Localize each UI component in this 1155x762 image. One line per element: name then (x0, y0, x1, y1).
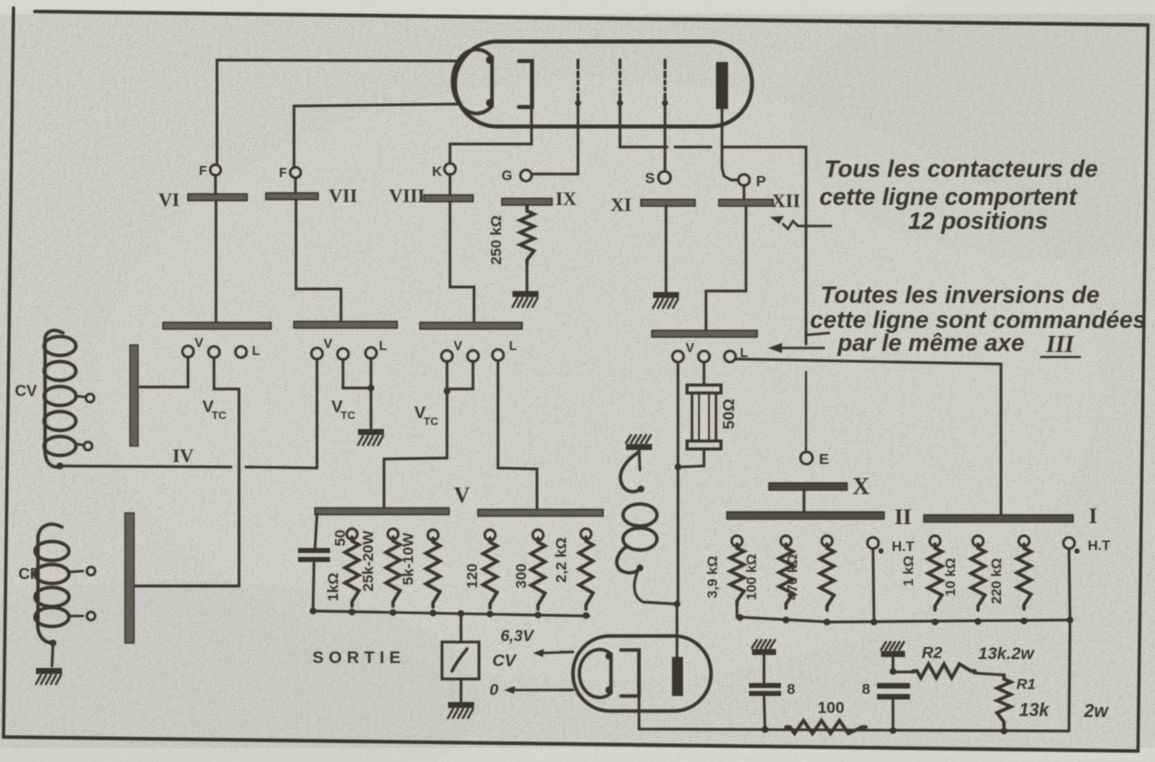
wire ground to choke (639, 450, 640, 470)
svg-text:2,2 kΩ: 2,2 kΩ (553, 537, 570, 582)
label R2 (922, 645, 943, 662)
svg-text:2w: 2w (1083, 701, 1109, 721)
svg-text:III: III (1045, 332, 1076, 358)
svg-text:P: P (756, 173, 766, 190)
terminal R 3.9k (732, 536, 742, 546)
svg-text:L: L (509, 338, 517, 353)
switch VII (266, 186, 357, 207)
junction (bank2 935) (932, 619, 939, 626)
note inversions line 2 (810, 307, 1146, 334)
junction (bank V 490) (487, 611, 494, 618)
label 120 (464, 563, 481, 588)
junction (bank2 1070) (1067, 617, 1074, 624)
wire switch V to C 1k (315, 514, 317, 548)
junction (cap2 bottom) (890, 727, 897, 734)
wire D-center to R 50ohm (703, 362, 706, 384)
wire B-V to line IV (316, 359, 319, 468)
junction (bank V 433) (430, 610, 437, 617)
svg-text:CV: CV (15, 383, 38, 400)
switch XII (719, 191, 800, 212)
terminal S (645, 170, 671, 187)
terminal P (739, 173, 767, 190)
wire cathode V1 to K (450, 107, 532, 163)
junction (CF bottom) (50, 640, 57, 647)
meter SORTIE box (442, 642, 479, 679)
resistor 300 (531, 538, 545, 609)
svg-text:12 positions: 12 positions (908, 208, 1048, 235)
coil choke (617, 452, 657, 573)
svg-text:13k: 13k (1019, 700, 1050, 720)
label IV (172, 446, 193, 467)
junction (bank V 461) (458, 610, 465, 617)
wire bank V bottom (313, 611, 589, 616)
svg-text:50Ω: 50Ω (721, 399, 738, 430)
wire C-L down to switch V right (498, 361, 537, 508)
wire ground to cap1 (763, 655, 766, 683)
svg-text:300: 300 (513, 563, 530, 588)
wire P to switch XII (743, 185, 746, 199)
coil CV (44, 330, 76, 467)
wire R 50ohm down (680, 449, 704, 467)
terminal A-L (236, 343, 261, 358)
arrow heater CV (533, 649, 573, 657)
wire to SORTIE (460, 614, 463, 642)
svg-text:100: 100 (818, 700, 845, 717)
switch wafer C (420, 323, 522, 330)
junction (bank V 538) (535, 612, 542, 619)
label SORTIE (312, 648, 405, 667)
terminal A-center (209, 347, 220, 358)
note inversions line 3 (837, 330, 1025, 357)
wire line IV (60, 466, 317, 468)
svg-text:220 kΩ: 220 kΩ (988, 558, 1004, 604)
arrow heater 0 (504, 686, 573, 694)
wire B-L to ground (370, 358, 373, 428)
junction (R2 cap2) (890, 668, 897, 675)
svg-text:L: L (252, 343, 260, 358)
wire V2 heater pin 1 (560, 651, 573, 653)
label CV out (492, 651, 517, 670)
wire SORTIE to ground (460, 679, 463, 701)
junction (50ohm) (675, 464, 682, 471)
ground (CF) (36, 668, 62, 684)
svg-text:1 kΩ: 1 kΩ (900, 556, 916, 587)
tube V1 filament (453, 50, 494, 114)
terminal R 120 (485, 530, 495, 540)
tube V1 grid 1 (575, 60, 581, 106)
wire R1 down (1003, 724, 1006, 731)
svg-text:8: 8 (862, 681, 870, 698)
border frame top (35, 12, 1148, 26)
wire L line to I (736, 359, 1001, 515)
junction (bank2 740) (737, 614, 744, 621)
terminal R 220k (1019, 536, 1029, 546)
wire anode line into V2 (676, 604, 679, 657)
terminal E (801, 451, 830, 468)
terminal R 2.2k (581, 529, 591, 539)
label V (454, 482, 470, 507)
wire A-center down (V_TC) (136, 358, 239, 586)
svg-text:V: V (454, 338, 463, 353)
label V_TC (B) (331, 397, 355, 422)
label 8 (1) (787, 681, 795, 698)
svg-text:X: X (852, 474, 870, 500)
svg-text:TC: TC (212, 410, 227, 422)
wire grid1 to G (533, 101, 578, 174)
label 1kOhm (325, 573, 342, 602)
svg-text:SORTIE: SORTIE (312, 648, 405, 667)
terminal R 25k (388, 529, 398, 539)
border frame right (1138, 25, 1148, 751)
ground (SORTIE) (448, 702, 474, 718)
resistor 100k (743, 544, 793, 608)
capacitor (1k branch) (298, 548, 330, 562)
label V_TC (C) (414, 403, 438, 428)
coil CF tap 2 (69, 612, 95, 620)
note contacteurs line 2 (819, 184, 1077, 211)
resistor 10k (942, 544, 985, 610)
resistor 3.9k (704, 544, 744, 605)
wire B-center join (343, 359, 369, 388)
label 25k-20W (360, 530, 377, 592)
resistor 5k-10W (426, 538, 440, 607)
svg-text:1kΩ: 1kΩ (325, 573, 342, 602)
svg-text:0: 0 (490, 682, 499, 699)
resistor 250k (488, 207, 534, 265)
ground (choke) (626, 435, 652, 450)
svg-text:VIII: VIII (389, 186, 425, 207)
wire R2 to R1 (974, 673, 1004, 678)
svg-text:par le même axe: par le même axe (837, 330, 1025, 357)
wire switch VIII stem (450, 202, 474, 322)
wire switch VI stem (215, 201, 218, 322)
coil CF (35, 524, 69, 643)
svg-text:IV: IV (172, 446, 193, 467)
note contacteurs line 1 (824, 156, 1098, 183)
tube V1 anode (716, 62, 728, 109)
terminal D-L (725, 345, 749, 362)
junction (bank2 1024) (1021, 618, 1028, 625)
junction (choke top) (638, 486, 645, 493)
junction (R1 bottom) (1001, 728, 1008, 735)
ground (cap2) (881, 642, 905, 657)
note inversions line 1 (820, 282, 1099, 309)
terminal C-center (468, 351, 479, 362)
switch V right (478, 510, 603, 517)
tube V1 cathode (519, 61, 532, 107)
resistor R2 (913, 664, 975, 678)
svg-text:100 kΩ: 100 kΩ (743, 554, 759, 600)
svg-text:H.T: H.T (892, 538, 915, 554)
wire cap1 down (764, 696, 765, 729)
wire X stem (803, 490, 806, 512)
junction (bank V 352) (349, 609, 356, 616)
wire A-V to trimmer bar CV (140, 357, 188, 387)
label axe III (1041, 332, 1080, 358)
svg-text:CF: CF (18, 566, 40, 583)
switch X (769, 474, 870, 500)
svg-text:VI: VI (158, 190, 179, 211)
svg-text:I: I (1089, 503, 1098, 528)
junction (bank V 313) (310, 608, 317, 615)
junction (cap1) (762, 726, 769, 733)
svg-text:E: E (819, 451, 829, 468)
svg-text:VII: VII (329, 186, 358, 207)
label 50ohm (721, 399, 738, 430)
terminal G (502, 167, 532, 183)
label 50 (332, 530, 349, 547)
wire HT right down (1069, 549, 1070, 731)
wire switch IX to R 250k (526, 205, 529, 209)
junction (bank2 874) (871, 619, 878, 626)
wire switch XII stem (706, 206, 746, 330)
tube V2 filament (579, 650, 612, 698)
trimmer plate (CF) (125, 513, 134, 643)
wire node E vertical (805, 372, 807, 451)
resistor 50 (345, 537, 359, 606)
terminal D-center (699, 351, 710, 362)
switch XI (610, 195, 695, 216)
label CV (15, 383, 38, 400)
tube V1 envelope (455, 42, 752, 127)
label 0 (490, 682, 499, 699)
svg-text:5k-10W: 5k-10W (400, 532, 417, 585)
svg-text:8: 8 (787, 681, 795, 698)
wire switch VII stem (296, 200, 341, 321)
ground (B) (358, 429, 384, 445)
tube V1 grid 2 (617, 60, 623, 106)
wire cap2 down (892, 699, 895, 730)
wire V2 cathode down (639, 697, 1068, 731)
wire V2 heater pin 2 (560, 689, 573, 691)
arrow note 2 tick (806, 333, 829, 335)
wire K to switch VIII (449, 174, 452, 195)
wire filament-1 to F1 (217, 60, 462, 164)
terminal F2 (279, 165, 301, 180)
wire C-V down to switch V (384, 361, 447, 507)
svg-text:Tous les contacteurs de: Tous les contacteurs de (824, 156, 1098, 183)
wire R 250k to ground (526, 262, 529, 290)
svg-text:F: F (279, 165, 287, 180)
label 2w (1083, 701, 1109, 721)
svg-text:H.T: H.T (1088, 537, 1111, 553)
wire bank2 bottom (737, 605, 1070, 622)
label 100 (818, 700, 845, 717)
junction (bank2 786) (783, 617, 790, 624)
svg-text:3,9 kΩ: 3,9 kΩ (704, 556, 720, 598)
svg-text:R2: R2 (922, 645, 943, 662)
switch II (727, 504, 912, 529)
resistor 2.2k (579, 537, 593, 609)
terminal R 470k (822, 536, 832, 546)
svg-text:G: G (502, 167, 513, 183)
ground (XI) (653, 292, 679, 308)
label 5k-10W (400, 532, 417, 585)
wire F1 to switch VI (214, 175, 217, 194)
resistor 25k-20W (386, 537, 400, 606)
wire CF to ground (52, 643, 53, 666)
terminal K (432, 163, 456, 179)
svg-text:XII: XII (772, 191, 801, 212)
label 8 (2) (862, 681, 870, 698)
junction (CV bottom) (57, 463, 64, 470)
wire ground to cap2 (892, 657, 895, 671)
wire HT left down (873, 549, 874, 621)
arrow note 2 to L line (768, 343, 824, 353)
svg-text:R1: R1 (1016, 676, 1035, 693)
switch wafer A (163, 323, 271, 330)
svg-text:V: V (195, 335, 204, 350)
junction (anode line) (674, 601, 681, 608)
coil CV tap 2 (76, 442, 92, 450)
svg-text:cette ligne comportent: cette ligne comportent (819, 184, 1077, 211)
wire C 1k down (313, 562, 314, 611)
switch V left (315, 508, 449, 515)
wire F2 to switch VII (294, 178, 297, 193)
svg-text:TC: TC (341, 410, 356, 422)
switch I (924, 503, 1097, 528)
border frame left (4, 8, 14, 737)
terminal C-L (493, 338, 518, 361)
terminal C-V (442, 338, 463, 362)
resistor 1k (900, 544, 942, 610)
junction (bank2 827) (824, 619, 831, 626)
svg-text:XI: XI (610, 195, 631, 216)
resistor 50ohm (687, 385, 721, 449)
coil CF tap 1 (69, 567, 95, 575)
wire grid3 to S (664, 101, 667, 170)
junction (bank V 393) (390, 609, 397, 616)
resistor 470k (784, 544, 834, 610)
resistor 120 (483, 538, 497, 608)
junction (C) (444, 388, 451, 395)
svg-text:250 kΩ: 250 kΩ (488, 215, 505, 265)
switch wafer D (652, 331, 757, 338)
wire anode V1 to P (722, 109, 737, 180)
wire C-center join (449, 361, 473, 389)
svg-text:6,3V: 6,3V (501, 628, 535, 645)
tube V2 cathode (621, 650, 639, 696)
junction (bank V 586) (583, 612, 590, 619)
terminal R 50 (347, 529, 357, 539)
tube V2 envelope (573, 636, 711, 711)
svg-text:TC: TC (424, 416, 439, 428)
resistor R1 (997, 675, 1011, 726)
svg-text:II: II (894, 504, 911, 529)
wire dashed line to E (node) (620, 147, 806, 344)
tube V1 grid 3 (662, 60, 668, 106)
terminal A-V (183, 335, 204, 357)
border frame bottom (4, 737, 1139, 751)
terminal HT left (868, 538, 915, 555)
terminal R 10k (973, 536, 983, 546)
svg-text:120: 120 (464, 563, 481, 588)
svg-text:25k-20W: 25k-20W (360, 530, 377, 592)
resistor 220k (988, 544, 1031, 609)
svg-text:K: K (432, 163, 442, 179)
svg-text:13k.2w: 13k.2w (978, 644, 1036, 663)
wire grid2 stub (619, 101, 622, 147)
terminal F1 (199, 163, 221, 178)
arrow note 1 to XII (770, 216, 831, 229)
wire D-V long down (677, 362, 680, 605)
svg-text:CV: CV (492, 651, 517, 670)
terminal D-V (673, 340, 695, 362)
ground (cap1) (752, 640, 776, 655)
wire switch XI to ground (665, 206, 668, 291)
label 13k.2w (978, 644, 1036, 663)
terminal R 100k (781, 536, 791, 546)
junction (choke bottom) (637, 565, 644, 572)
switch wafer B (294, 322, 397, 329)
svg-text:F: F (199, 163, 207, 178)
label R1 (1016, 676, 1035, 693)
terminal B-L (366, 338, 388, 359)
terminal R 5k (428, 530, 438, 540)
junction (bank2 978) (975, 618, 982, 625)
svg-text:IX: IX (555, 189, 576, 210)
svg-text:10 kΩ: 10 kΩ (942, 558, 958, 596)
svg-text:L: L (379, 338, 387, 353)
svg-text:50: 50 (332, 530, 349, 547)
svg-text:V: V (454, 482, 470, 507)
terminal HT right (1064, 537, 1111, 554)
resistor 100 (786, 721, 866, 734)
ground (250k) (513, 291, 539, 307)
junction (IV left) (57, 463, 64, 470)
label 6.3V (501, 628, 535, 645)
label CF (18, 566, 40, 583)
terminal B-center (338, 349, 349, 360)
capacitor 8 (1) (749, 683, 781, 696)
svg-text:S: S (645, 170, 655, 187)
junction (B) (368, 385, 375, 392)
terminal R 1k (930, 536, 940, 546)
switch IX (502, 189, 577, 210)
label 300 (513, 563, 530, 588)
svg-text:470 kΩ: 470 kΩ (784, 554, 800, 600)
terminal B-V (312, 336, 333, 359)
wire trimmer CF to V_TC line (135, 585, 239, 588)
coil CV tap 1 (76, 394, 94, 402)
capacitor 8 (2) (877, 683, 910, 700)
terminal R 300 (533, 530, 543, 540)
label V_TC (A) (202, 397, 226, 422)
wire filament-2 to F2 (294, 104, 461, 167)
trimmer plate (CV) (130, 345, 138, 446)
svg-text:Toutes les inversions de: Toutes les inversions de (820, 282, 1099, 309)
label 2.2k (553, 537, 570, 582)
switch VI (158, 190, 247, 211)
tube V2 anode (672, 657, 683, 696)
note contacteurs line 3 (908, 208, 1048, 235)
svg-text:V: V (324, 336, 333, 351)
switch VIII (389, 186, 473, 207)
label 13k (1019, 700, 1050, 720)
svg-text:V: V (686, 340, 695, 355)
wire choke to anode line (634, 566, 676, 604)
wire cap2 to R2 (893, 671, 914, 674)
